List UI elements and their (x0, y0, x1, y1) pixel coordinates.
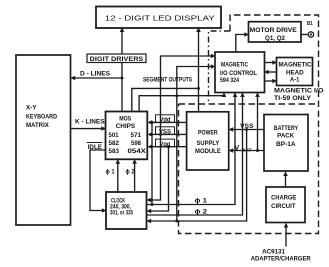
wire: AC adapter to charge circuit (285, 227, 287, 247)
svg-text:I/O CONTROL: I/O CONTROL (220, 71, 257, 77)
wire: segment bus A from MOS up to display, fed from power supply (132, 32, 199, 112)
svg-text:SUPPLY: SUPPLY (197, 140, 220, 147)
dashed step top-left of TI-59 box (209, 31, 231, 104)
block: charge circuit (266, 187, 305, 223)
wire: mag control 4th feed from VBAT rail (257, 97, 259, 151)
wire: lower line into mag control, down to clock input 3 (177, 67, 212, 222)
block: motor drive (249, 22, 302, 42)
svg-text:MOS: MOS (119, 117, 131, 123)
wire: Vgg line power supply to MOS (151, 146, 187, 148)
wire: D-lines to keyboard (74, 77, 122, 79)
wire: upper line into mag control, down to clock input 1 (150, 56, 212, 200)
node: VSS tap on upper line (159, 133, 162, 136)
node: junction of lower line with clock input 3 (175, 220, 178, 223)
wire: phi2 clock to mag control (147, 97, 243, 216)
svg-text:CHARGE: CHARGE (271, 194, 297, 201)
svg-text:V: V (235, 145, 240, 152)
svg-text:571: 571 (131, 133, 142, 139)
svg-text:PACK: PACK (277, 134, 295, 140)
svg-text:583: 583 (109, 149, 120, 155)
svg-text:12 - DIGIT LED DISPLAY: 12 - DIGIT LED DISPLAY (105, 15, 215, 22)
wire: K-lines keyboard to MOS (71, 128, 103, 130)
svg-text:MODULE: MODULE (195, 148, 221, 155)
svg-text:Vdd: Vdd (160, 118, 171, 124)
svg-text:VSS: VSS (159, 130, 171, 136)
svg-text:IDLE: IDLE (88, 144, 103, 151)
wire: mag control to motor drive (236, 35, 245, 53)
svg-text:X-Y: X-Y (26, 105, 37, 112)
svg-text:CHIPS: CHIPS (116, 124, 136, 130)
wire: clock input 3 from VSS rail via nested elbow (150, 130, 247, 222)
svg-text:Q1, Q2: Q1, Q2 (265, 35, 285, 42)
node: VSS rail tap (245, 128, 248, 131)
wire: Vgg tap down to clock input 2 (150, 147, 169, 211)
block: 12-digit LED display (96, 7, 221, 29)
wire: IDLE from MOS to clock (90, 150, 106, 211)
svg-text:MAGNETIC: MAGNETIC (221, 62, 249, 68)
block: X-Y keyboard matrix (16, 55, 71, 225)
wire: VBAT power supply to battery (232, 150, 264, 152)
wire: head to mag control (middle) (268, 71, 277, 73)
wire: phi2 clock to MOS (134, 163, 136, 192)
wire: mag control to head (upper) (265, 62, 274, 64)
svg-text:BP-1A: BP-1A (276, 142, 296, 148)
block: clock (106, 192, 147, 229)
dashed divider line (179, 103, 319, 105)
block: magnetic head (277, 58, 313, 86)
svg-text:240, 300,: 240, 300, (110, 205, 131, 211)
svg-text:ϕ 1: ϕ 1 (106, 169, 115, 176)
svg-text:MAGNETIC: MAGNETIC (279, 63, 313, 69)
label box Vdd (156, 115, 175, 123)
wire: motor drive to B1 (301, 34, 308, 36)
svg-text:MAGNETIC I/O: MAGNETIC I/O (274, 88, 324, 94)
svg-text:KEYBOARD: KEYBOARD (26, 114, 57, 121)
svg-text:POWER: POWER (198, 130, 218, 137)
svg-text:ADAPTER/CHARGER: ADAPTER/CHARGER (251, 256, 311, 263)
svg-text:501: 501 (109, 133, 120, 139)
label box VSS (156, 127, 175, 135)
svg-text:D - LINES: D - LINES (80, 71, 111, 78)
wire: MOS to digit drivers to display (121, 32, 123, 112)
block: battery pack (264, 115, 308, 172)
block: power supply module (187, 112, 229, 170)
svg-text:DIGIT DRIVERS: DIGIT DRIVERS (90, 56, 144, 63)
node: Vgg tap (167, 145, 170, 148)
wire: VSS line power supply to MOS (151, 133, 187, 135)
svg-text:CIRCUIT: CIRCUIT (271, 203, 295, 210)
svg-text:VSS: VSS (240, 123, 254, 130)
svg-text:K - LINES: K - LINES (75, 118, 105, 125)
svg-text:BATTERY: BATTERY (274, 126, 298, 132)
dashed outer border (179, 15, 319, 234)
svg-text:A-1: A-1 (290, 78, 300, 84)
block: MOS chips (106, 112, 148, 160)
svg-text:594 324: 594 324 (220, 78, 240, 84)
wire: mag control to head (lower) (265, 80, 274, 82)
svg-text:BAT: BAT (242, 148, 252, 154)
svg-text:ϕ 2: ϕ 2 (126, 169, 135, 176)
svg-text:ϕ 2: ϕ 2 (195, 209, 208, 216)
svg-text:TI-59 ONLY: TI-59 ONLY (274, 96, 311, 102)
svg-text:054X: 054X (128, 149, 146, 155)
node: VBAT rail tap (256, 149, 259, 152)
block: magnetic I/O control (215, 52, 265, 93)
svg-text:582: 582 (109, 141, 120, 147)
svg-text:ϕ 1: ϕ 1 (195, 198, 208, 205)
motor B1 symbol (308, 32, 313, 37)
svg-text:AC9131: AC9131 (262, 248, 285, 255)
wire: phi1 clock to MOS (117, 163, 119, 192)
wire: segment bus B from MOS to magnetic I/O control bottom (139, 96, 224, 112)
wire: VSS power supply to battery (232, 129, 264, 131)
wire: Vdd tap down to phi1 line (151, 122, 153, 204)
svg-text:MOTOR DRIVE: MOTOR DRIVE (250, 27, 298, 34)
label box Vgg (156, 139, 175, 147)
svg-text:598: 598 (131, 141, 142, 147)
svg-text:MATRIX: MATRIX (26, 122, 49, 129)
wire: charge circuit to battery (285, 176, 287, 188)
svg-text:Vgg: Vgg (160, 142, 171, 148)
svg-text:B1: B1 (307, 21, 313, 27)
wire: Vdd line power supply to MOS (151, 121, 187, 123)
svg-text:HEAD: HEAD (286, 70, 304, 76)
node: junction of lower line with segment bus B (175, 94, 178, 97)
node: segment bus A joins display feed (197, 87, 200, 90)
node: D-lines junction (121, 77, 124, 80)
dashed enclosure: magnetic I/O TI-59 only + charger section (179, 15, 319, 234)
svg-text:301, or 335: 301, or 335 (110, 211, 133, 217)
block: digit drivers (87, 54, 146, 63)
svg-text:SEGMENT OUTPUTS: SEGMENT OUTPUTS (143, 77, 192, 84)
wire: phi1 clock to mag control (147, 97, 236, 205)
